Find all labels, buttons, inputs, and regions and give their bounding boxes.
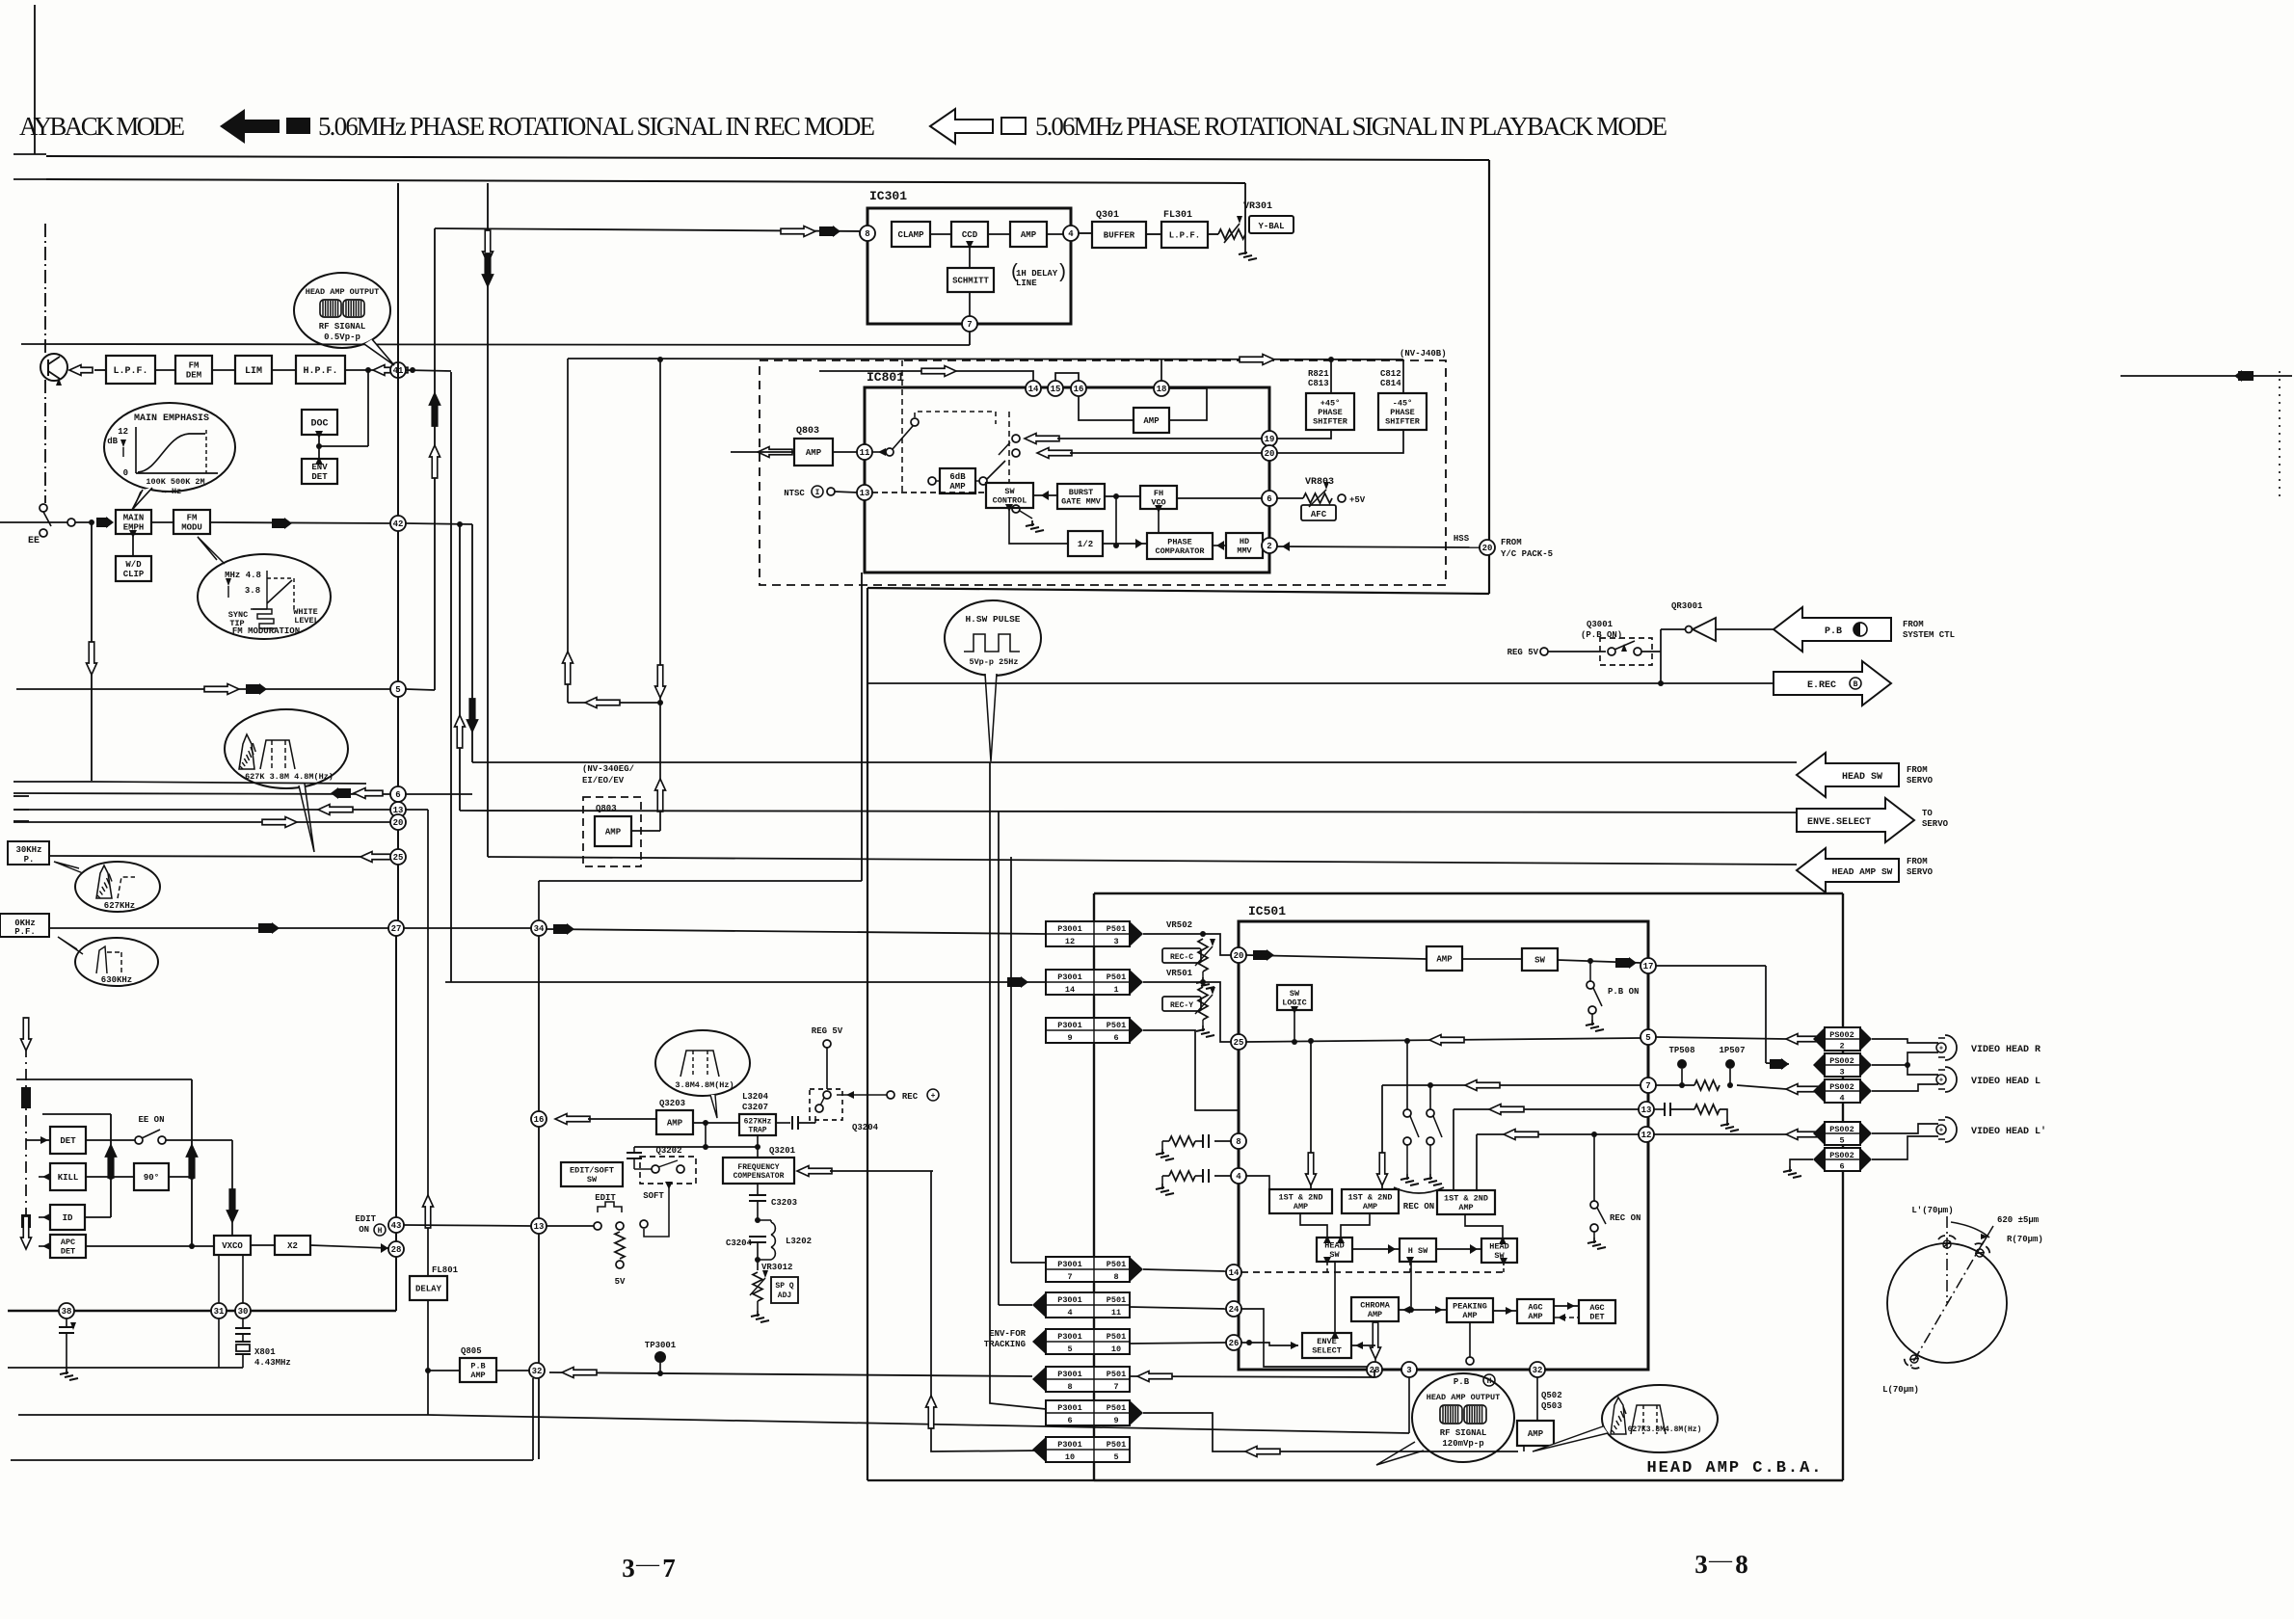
svg-text:HSS: HSS bbox=[1454, 534, 1470, 544]
svg-text:0.5Vp-p: 0.5Vp-p bbox=[324, 333, 360, 342]
svg-text:DET: DET bbox=[60, 1136, 76, 1146]
svg-text:GATE MMV: GATE MMV bbox=[1061, 497, 1102, 507]
MAIN EMPHASIS balloon bbox=[104, 403, 235, 492]
E.REC wire bbox=[867, 682, 1774, 684]
svg-text:12: 12 bbox=[1641, 1131, 1652, 1140]
left stub line y810 bbox=[13, 781, 92, 783]
627KHz balloon left bbox=[75, 862, 160, 912]
bottom line y1514 bbox=[11, 1459, 533, 1461]
svg-text:5V: 5V bbox=[615, 1277, 626, 1287]
svg-text:5.06MHz PHASE ROTATIONAL SIGNA: 5.06MHz PHASE ROTATIONAL SIGNAL IN PLAYB… bbox=[1035, 112, 1667, 141]
svg-text:VR501: VR501 bbox=[1166, 969, 1193, 978]
svg-text:8: 8 bbox=[1236, 1137, 1240, 1147]
svg-text:5: 5 bbox=[1645, 1033, 1650, 1043]
svg-text:20: 20 bbox=[393, 818, 404, 828]
node 20 row bbox=[13, 821, 390, 823]
x462 corner to pair#2 bbox=[445, 981, 1046, 983]
E.REC arrow bbox=[1774, 661, 1891, 706]
svg-text:AMP: AMP bbox=[1462, 1311, 1477, 1320]
svg-text:8: 8 bbox=[865, 229, 869, 239]
dash-dot left col bbox=[25, 1046, 27, 1253]
svg-text:I: I bbox=[815, 489, 820, 497]
svg-text:ID: ID bbox=[63, 1213, 73, 1223]
svg-text:FROM: FROM bbox=[1907, 857, 1928, 866]
node 12R row bbox=[1639, 1127, 1654, 1142]
node 25L bbox=[1231, 1034, 1246, 1050]
svg-text:AMP: AMP bbox=[1458, 1203, 1473, 1212]
svg-text:REG 5V: REG 5V bbox=[812, 1026, 843, 1036]
svg-text:1ST & 2ND: 1ST & 2ND bbox=[1444, 1194, 1488, 1204]
svg-text:1ST & 2ND: 1ST & 2ND bbox=[1348, 1193, 1393, 1203]
pair 5/10 wire right bbox=[1130, 1343, 1226, 1344]
video head L coil bbox=[1938, 1069, 1945, 1071]
pair 4/11 wires bbox=[998, 811, 1000, 1305]
svg-text:FM: FM bbox=[189, 361, 200, 371]
svg-text:AGC: AGC bbox=[1589, 1303, 1604, 1313]
svg-text:AGC: AGC bbox=[1528, 1303, 1542, 1313]
svg-text:627KHz: 627KHz bbox=[744, 1117, 772, 1126]
svg-text:L'(70μm): L'(70μm) bbox=[1911, 1206, 1953, 1215]
svg-text:SW: SW bbox=[587, 1175, 598, 1185]
amp box bbox=[1427, 946, 1462, 971]
bottom line y1419 bbox=[8, 1367, 219, 1369]
627K balloon bbox=[225, 709, 348, 788]
svg-text:HEAD SW: HEAD SW bbox=[1842, 772, 1882, 783]
svg-text:+: + bbox=[1939, 1046, 1943, 1053]
svg-text:HEAD AMP OUTPUT: HEAD AMP OUTPUT bbox=[1427, 1393, 1501, 1402]
svg-text:1/2: 1/2 bbox=[1078, 540, 1093, 549]
VR301 Y-BAL pot bbox=[1208, 233, 1218, 235]
PHASE COMPARATOR bbox=[1147, 533, 1213, 559]
svg-text:8: 8 bbox=[1735, 1550, 1748, 1579]
svg-text:28: 28 bbox=[391, 1245, 402, 1255]
svg-text:AMP: AMP bbox=[1363, 1202, 1377, 1211]
node 13R row bbox=[1639, 1102, 1654, 1117]
drum head L-prime bbox=[1938, 1236, 1956, 1248]
svg-text:APC: APC bbox=[61, 1238, 75, 1247]
svg-text:P3001: P3001 bbox=[1057, 1332, 1082, 1342]
svg-text:PEAKING: PEAKING bbox=[1453, 1302, 1487, 1312]
pair P3001-7/P501-8 bbox=[1046, 1257, 1130, 1282]
header arrow PB (hollow) bbox=[930, 109, 993, 144]
svg-text:100K 500K 2M: 100K 500K 2M bbox=[146, 477, 204, 487]
svg-text:P3001: P3001 bbox=[1057, 1021, 1082, 1030]
svg-text:SERVO: SERVO bbox=[1922, 819, 1949, 829]
node 5R bbox=[1640, 1029, 1656, 1045]
x559 node16 bbox=[531, 1111, 547, 1127]
svg-text:AFC: AFC bbox=[1311, 510, 1327, 519]
svg-text:SOFT: SOFT bbox=[643, 1191, 664, 1201]
svg-text:EE ON: EE ON bbox=[138, 1115, 164, 1125]
svg-text:CHROMA: CHROMA bbox=[1360, 1301, 1391, 1311]
ID box bbox=[39, 1216, 50, 1218]
dashed verticals bbox=[901, 360, 903, 493]
svg-text:6dB: 6dB bbox=[949, 472, 966, 482]
svg-text:CLIP: CLIP bbox=[123, 570, 145, 579]
L2 corner down to Y-BAL net bbox=[1244, 183, 1246, 234]
svg-text:20: 20 bbox=[1234, 951, 1244, 961]
svg-text:16: 16 bbox=[1074, 385, 1084, 394]
svg-text:PHASE: PHASE bbox=[1167, 538, 1192, 547]
svg-text:10: 10 bbox=[1065, 1452, 1075, 1462]
svg-text:11: 11 bbox=[1111, 1308, 1121, 1318]
svg-text:14: 14 bbox=[1028, 385, 1039, 394]
HD MMV bbox=[1226, 533, 1263, 558]
svg-text:AMP: AMP bbox=[1436, 955, 1453, 965]
nodes 19 20 right edge bbox=[1262, 431, 1277, 446]
svg-text:P501: P501 bbox=[1107, 1370, 1126, 1379]
svg-text:PS002: PS002 bbox=[1829, 1151, 1854, 1160]
svg-text:P3001: P3001 bbox=[1057, 1260, 1082, 1269]
svg-text:9: 9 bbox=[1067, 1033, 1072, 1043]
svg-text:C813: C813 bbox=[1308, 379, 1329, 388]
svg-text:+: + bbox=[1939, 1078, 1943, 1085]
pair P3001-6/P501-9 bbox=[1046, 1400, 1130, 1425]
sw box bbox=[1522, 948, 1558, 971]
svg-text:2: 2 bbox=[1839, 1042, 1844, 1052]
svg-text:LINE: LINE bbox=[1016, 279, 1037, 288]
ENVE SELECT bbox=[1302, 1333, 1351, 1358]
pair 8/7 wires bbox=[549, 1372, 1032, 1376]
svg-text:Q502: Q502 bbox=[1541, 1391, 1562, 1400]
svg-text:10: 10 bbox=[1111, 1344, 1121, 1354]
pair P3001-8/P501-7 bbox=[1046, 1367, 1130, 1392]
svg-text:1H DELAY: 1H DELAY bbox=[1016, 269, 1058, 279]
svg-text:HEAD AMP SW: HEAD AMP SW bbox=[1832, 866, 1893, 877]
AMP to TRAP wiring bbox=[705, 1123, 707, 1147]
LPF box bbox=[106, 356, 155, 384]
video head wiring bbox=[1872, 1039, 1938, 1043]
svg-text:L.P.F.: L.P.F. bbox=[1169, 231, 1200, 241]
outer head-amp box bbox=[1094, 892, 1843, 894]
vertical from MAIN EMPH junction down bbox=[91, 522, 93, 781]
svg-text:38: 38 bbox=[62, 1307, 72, 1317]
svg-text:5Vp-p 25Hz: 5Vp-p 25Hz bbox=[969, 657, 1018, 667]
svg-text:BUFFER: BUFFER bbox=[1104, 231, 1135, 241]
svg-text:4: 4 bbox=[1839, 1094, 1844, 1104]
svg-text:12: 12 bbox=[1065, 937, 1075, 946]
svg-text:EDIT/SOFT: EDIT/SOFT bbox=[570, 1166, 614, 1176]
node 27 row bbox=[49, 927, 388, 929]
left module edge (dash-dot) bbox=[44, 224, 46, 357]
W/D CLIP box bbox=[116, 556, 151, 581]
HEAD AMP OUTPUT balloon bbox=[294, 273, 390, 348]
REC ON switch pair S1 S2 bbox=[1406, 1041, 1408, 1109]
svg-text:COMPENSATOR: COMPENSATOR bbox=[734, 1172, 785, 1181]
trap out / Q3204 bbox=[776, 1122, 790, 1124]
fix cap placement 13R bbox=[1654, 1108, 1665, 1110]
svg-text:H SW: H SW bbox=[1408, 1246, 1428, 1256]
svg-text:HEAD: HEAD bbox=[1489, 1242, 1508, 1252]
IC801 dashed module box bbox=[760, 360, 1446, 585]
svg-text:MODU: MODU bbox=[181, 523, 202, 533]
svg-text:Q805: Q805 bbox=[461, 1346, 482, 1356]
bus vertical x477 bbox=[459, 524, 461, 811]
svg-text:ENVE.SELECT: ENVE.SELECT bbox=[1807, 817, 1871, 828]
svg-text:DET: DET bbox=[1589, 1313, 1604, 1322]
svg-text:P501: P501 bbox=[1107, 924, 1126, 934]
svg-text:X801: X801 bbox=[254, 1347, 276, 1357]
svg-text:FL801: FL801 bbox=[432, 1265, 459, 1275]
svg-text:L(70μm): L(70μm) bbox=[1882, 1385, 1919, 1395]
svg-text:P.B: P.B bbox=[470, 1362, 485, 1371]
svg-text:P.B: P.B bbox=[1454, 1377, 1470, 1387]
svg-text:SW: SW bbox=[1329, 1250, 1340, 1260]
svg-text:REC ON: REC ON bbox=[1403, 1202, 1434, 1211]
node 32 bbox=[529, 1363, 545, 1378]
node38 cap/gnd bbox=[66, 1318, 67, 1327]
svg-text:P501: P501 bbox=[1107, 1403, 1126, 1413]
svg-text:3: 3 bbox=[1694, 1550, 1708, 1579]
svg-text:11: 11 bbox=[860, 448, 870, 458]
svg-text:20: 20 bbox=[1265, 449, 1275, 459]
y373 wire over shifters bbox=[568, 359, 1403, 359]
svg-text:25: 25 bbox=[393, 853, 404, 863]
svg-text:EDIT: EDIT bbox=[355, 1214, 376, 1224]
pair P3001-12/P501-3 bbox=[1046, 921, 1130, 946]
svg-text:AMP: AMP bbox=[667, 1119, 683, 1129]
svg-text:42: 42 bbox=[393, 519, 404, 529]
svg-text:L.P.F.: L.P.F. bbox=[113, 366, 147, 377]
svg-text:4: 4 bbox=[1068, 229, 1074, 239]
svg-text:+: + bbox=[931, 1092, 936, 1101]
svg-text:P3001: P3001 bbox=[1057, 1403, 1082, 1413]
PS002 4 bbox=[1825, 1079, 1860, 1103]
630KHz balloon bbox=[75, 938, 158, 986]
svg-text:Q3203: Q3203 bbox=[659, 1099, 685, 1108]
amp outputs to head sw bbox=[1300, 1213, 1327, 1238]
svg-text:SW: SW bbox=[1004, 487, 1015, 496]
svg-text:dB: dB bbox=[107, 437, 118, 446]
svg-text:HD: HD bbox=[1240, 537, 1249, 546]
svg-text:ADJ: ADJ bbox=[778, 1291, 791, 1300]
amp box right bbox=[1134, 408, 1169, 433]
pair 9/6 right wire bbox=[1143, 1030, 1239, 1110]
HEAD SW boxes bbox=[1317, 1238, 1352, 1262]
node 4 bbox=[1063, 226, 1079, 241]
svg-text:-45°: -45° bbox=[1393, 398, 1412, 408]
svg-text:0: 0 bbox=[123, 468, 128, 478]
bottom edge nodes bbox=[1367, 1362, 1382, 1377]
svg-text:FREQUENCY: FREQUENCY bbox=[737, 1163, 779, 1172]
X801 bbox=[218, 1318, 220, 1368]
header arrow REC (filled) bbox=[220, 109, 280, 144]
svg-text:PS002: PS002 bbox=[1829, 1056, 1854, 1066]
svg-text:P3001: P3001 bbox=[1057, 1295, 1082, 1305]
node 17 bbox=[1640, 958, 1656, 973]
svg-text:R(70μm): R(70μm) bbox=[2007, 1235, 2043, 1244]
node column vertical bbox=[397, 183, 399, 928]
6dB amp bbox=[928, 477, 936, 485]
svg-text:→ Hz: → Hz bbox=[162, 487, 181, 496]
heavy bottom line y1360 bbox=[8, 1310, 396, 1313]
node 11 bbox=[857, 444, 872, 460]
svg-text:7: 7 bbox=[1645, 1081, 1650, 1091]
svg-text:P.B ON: P.B ON bbox=[1608, 987, 1639, 997]
svg-text:VIDEO HEAD R: VIDEO HEAD R bbox=[1971, 1045, 2041, 1055]
svg-text:P3001: P3001 bbox=[1057, 1440, 1082, 1450]
svg-text:P.: P. bbox=[24, 855, 35, 865]
LIM box bbox=[235, 356, 272, 384]
svg-text:SW: SW bbox=[1290, 989, 1300, 998]
x1360 down to amp1 bbox=[1310, 1041, 1312, 1189]
node 14L dashed row bbox=[1226, 1265, 1241, 1280]
FM DEM box bbox=[175, 356, 212, 384]
amp box bbox=[1010, 222, 1047, 247]
svg-text:27: 27 bbox=[391, 924, 402, 934]
pair P3001-14/P501-1 bbox=[1046, 970, 1130, 995]
svg-text:Q803: Q803 bbox=[596, 804, 617, 813]
vertical to pair 6/9 bbox=[990, 762, 1046, 1409]
svg-text:+45°: +45° bbox=[1320, 398, 1340, 408]
3.8M4.8M balloon bbox=[655, 1030, 750, 1096]
video head L' coil bbox=[1938, 1119, 1945, 1121]
627K balloon 2 bbox=[1602, 1385, 1718, 1452]
svg-text:16: 16 bbox=[534, 1115, 545, 1125]
PS002 5 bbox=[1825, 1122, 1860, 1145]
svg-text:P501: P501 bbox=[1107, 972, 1126, 982]
svg-text:4: 4 bbox=[1067, 1308, 1072, 1318]
svg-text:P3001: P3001 bbox=[1057, 1370, 1082, 1379]
VR501 bbox=[1143, 981, 1203, 983]
svg-text:32: 32 bbox=[1533, 1366, 1543, 1375]
ground under Y-BAL bbox=[1244, 234, 1246, 249]
svg-text:4.43MHz: 4.43MHz bbox=[254, 1358, 291, 1368]
svg-text:7: 7 bbox=[662, 1554, 676, 1583]
svg-text:32: 32 bbox=[532, 1367, 543, 1376]
svg-text:AMP: AMP bbox=[605, 828, 622, 838]
svg-text:43: 43 bbox=[391, 1221, 402, 1231]
node 6 row bbox=[13, 793, 390, 794]
svg-text:MAIN EMPHASIS: MAIN EMPHASIS bbox=[134, 413, 209, 424]
svg-text:FROM: FROM bbox=[1501, 538, 1522, 547]
svg-text:P3001: P3001 bbox=[1057, 972, 1082, 982]
svg-text:IC801: IC801 bbox=[867, 370, 904, 385]
svg-text:VR502: VR502 bbox=[1166, 920, 1192, 930]
DET box bbox=[26, 1139, 50, 1141]
svg-text:REC: REC bbox=[902, 1092, 919, 1102]
svg-text:SHIFTER: SHIFTER bbox=[1385, 416, 1421, 426]
svg-text:DET: DET bbox=[61, 1247, 75, 1257]
svg-text:5: 5 bbox=[1067, 1344, 1072, 1354]
svg-text:P.F.: P.F. bbox=[14, 927, 36, 937]
svg-text:26: 26 bbox=[1229, 1339, 1240, 1348]
svg-text:CCD: CCD bbox=[962, 230, 978, 240]
svg-text:TP3001: TP3001 bbox=[645, 1341, 677, 1350]
node 26L bbox=[1226, 1335, 1241, 1350]
svg-text:AMP: AMP bbox=[806, 448, 822, 458]
svg-text:DOC: DOC bbox=[310, 419, 328, 430]
svg-text:13: 13 bbox=[860, 489, 870, 498]
svg-text:5.06MHz PHASE ROTATIONAL SIGNA: 5.06MHz PHASE ROTATIONAL SIGNAL IN REC M… bbox=[318, 112, 875, 141]
svg-text:2: 2 bbox=[1267, 542, 1271, 551]
svg-text:FROM: FROM bbox=[1907, 765, 1928, 775]
svg-text:34: 34 bbox=[534, 924, 545, 934]
y914 link + x894 bbox=[538, 881, 540, 920]
svg-text:3: 3 bbox=[1406, 1366, 1411, 1375]
svg-text:19: 19 bbox=[1265, 435, 1275, 444]
DOC branch bbox=[367, 370, 369, 446]
svg-text:ENV-FOR: ENV-FOR bbox=[989, 1329, 1026, 1339]
svg-text:REC-Y: REC-Y bbox=[1170, 1001, 1193, 1010]
node 20L bbox=[1231, 947, 1246, 963]
svg-text:ENV: ENV bbox=[311, 463, 328, 472]
pair P3001-9/P501-6 bbox=[1046, 1018, 1130, 1043]
svg-text:): ) bbox=[1056, 262, 1068, 284]
wire FM MODU to node 42 bbox=[210, 522, 390, 523]
svg-text:SP Q: SP Q bbox=[775, 1282, 793, 1291]
HEAD AMP SW wire+arrow bbox=[488, 857, 1797, 865]
svg-text:C3207: C3207 bbox=[742, 1103, 768, 1112]
x559 long vertical bbox=[538, 936, 540, 1459]
pair 7/8 wires bbox=[1010, 857, 1012, 1263]
svg-text:8: 8 bbox=[1067, 1382, 1072, 1392]
bus vertical x506 bbox=[487, 183, 489, 857]
ENV DET box bbox=[302, 459, 337, 484]
ENVE.SELECT wire+arrow bbox=[460, 811, 1797, 812]
svg-text:627K3.8M4.8M(Hz): 627K3.8M4.8M(Hz) bbox=[1628, 1425, 1702, 1434]
svg-text:14: 14 bbox=[1065, 985, 1075, 995]
wire to IC301 pin 8 bbox=[435, 228, 867, 231]
svg-text:LIM: LIM bbox=[245, 366, 262, 377]
VR502 bbox=[1143, 933, 1203, 935]
svg-text:FM: FM bbox=[187, 514, 198, 523]
ccd box bbox=[951, 222, 988, 247]
video head R coil bbox=[1938, 1037, 1945, 1039]
PS002 3 bbox=[1825, 1053, 1860, 1077]
svg-text:TRACKING: TRACKING bbox=[984, 1340, 1026, 1349]
svg-text:7: 7 bbox=[1113, 1382, 1118, 1392]
right switch contacts to 19/20 bbox=[1012, 435, 1020, 442]
svg-text:P501: P501 bbox=[1107, 1260, 1126, 1269]
svg-text:Q3201: Q3201 bbox=[769, 1146, 796, 1156]
svg-text:Q3204: Q3204 bbox=[852, 1123, 879, 1132]
svg-text:627K 3.8M 4.8M(Hz): 627K 3.8M 4.8M(Hz) bbox=[245, 772, 333, 782]
svg-text:13: 13 bbox=[1641, 1105, 1652, 1115]
svg-text:VIDEO HEAD L: VIDEO HEAD L bbox=[1971, 1077, 2041, 1087]
wire into node14 bbox=[819, 370, 1027, 372]
svg-text:SERVO: SERVO bbox=[1907, 867, 1934, 877]
H SW down to chroma/peaking bbox=[1410, 1262, 1412, 1310]
AGC AMP bbox=[1517, 1299, 1554, 1323]
svg-text:6: 6 bbox=[1067, 1416, 1072, 1425]
VR3012 bbox=[757, 1260, 759, 1270]
svg-text:EI/EO/EV: EI/EO/EV bbox=[582, 776, 625, 785]
svg-text:90°: 90° bbox=[144, 1173, 159, 1183]
bus vertical x468 bbox=[450, 372, 452, 982]
bus vertical x490 bbox=[471, 524, 473, 762]
bottom link x900 to box bbox=[867, 1479, 1094, 1481]
0KHz PF box bbox=[0, 914, 49, 937]
svg-text:SELECT: SELECT bbox=[1312, 1346, 1342, 1356]
1ST & 2ND AMP boxes bbox=[1269, 1189, 1332, 1213]
svg-text:SYSTEM CTL: SYSTEM CTL bbox=[1903, 630, 1955, 640]
90deg box bbox=[134, 1163, 169, 1190]
svg-text:25: 25 bbox=[1234, 1038, 1244, 1048]
svg-text:REC ON: REC ON bbox=[1610, 1213, 1640, 1223]
svg-text:AMP: AMP bbox=[1368, 1310, 1382, 1319]
svg-text:PS002: PS002 bbox=[1829, 1082, 1854, 1092]
svg-text:PHASE: PHASE bbox=[1390, 408, 1415, 417]
svg-text:AMP: AMP bbox=[470, 1371, 485, 1380]
svg-text:120mVp-p: 120mVp-p bbox=[1442, 1439, 1483, 1449]
C3203 bbox=[757, 1184, 759, 1195]
svg-text:31: 31 bbox=[214, 1307, 225, 1317]
HSS wire bbox=[1277, 546, 1480, 547]
head amp region left edge x900 bbox=[867, 588, 868, 1480]
bottom line y1468 bbox=[18, 1414, 428, 1416]
hollow arrow into transistor bbox=[69, 365, 93, 376]
